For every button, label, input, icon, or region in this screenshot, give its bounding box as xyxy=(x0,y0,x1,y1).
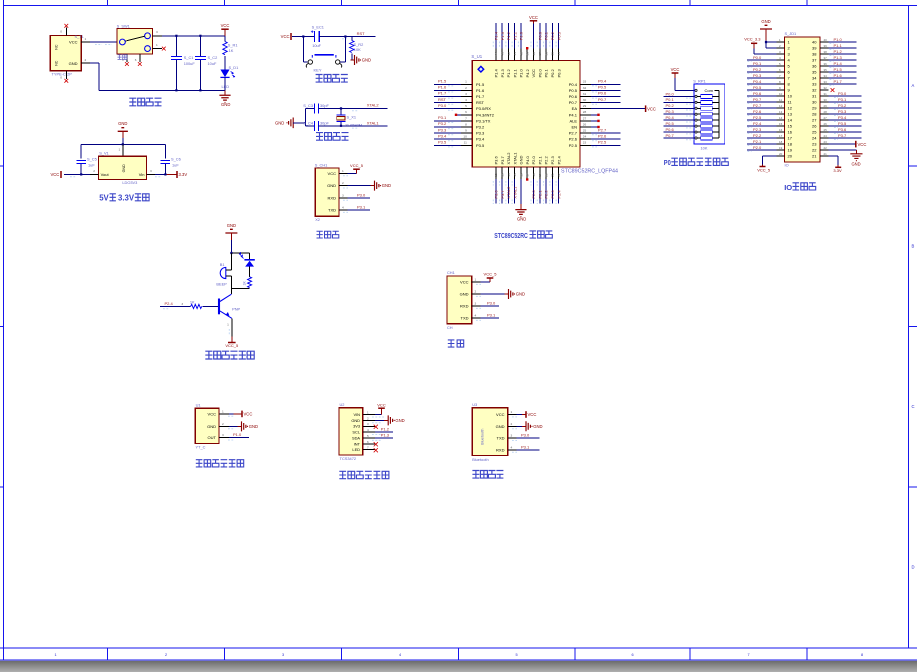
svg-text:2: 2 xyxy=(465,86,467,90)
svg-text:13: 13 xyxy=(779,110,783,114)
resistor S_R2 10K xyxy=(350,37,364,53)
svg-text:P0.0: P0.0 xyxy=(753,55,762,60)
svg-text:GND: GND xyxy=(207,424,216,429)
node title serial xyxy=(448,340,455,347)
wire stub with marker xyxy=(591,114,598,116)
svg-text:P2.2: P2.2 xyxy=(544,155,549,164)
svg-text:RST: RST xyxy=(438,97,447,102)
svg-text:16: 16 xyxy=(519,173,523,177)
wire net P3.6 xyxy=(829,131,862,133)
svg-text:VCC_5: VCC_5 xyxy=(757,167,771,172)
capacitor S_C1 100uF xyxy=(171,36,195,91)
svg-text:33: 33 xyxy=(824,80,828,84)
svg-text:27: 27 xyxy=(583,116,587,120)
svg-text:4: 4 xyxy=(511,445,513,449)
crystal S_X1 11.0592M xyxy=(337,108,363,127)
svg-text:P0.3: P0.3 xyxy=(556,31,561,40)
svg-text:P3.7: P3.7 xyxy=(500,155,505,164)
svg-text:GND: GND xyxy=(122,164,126,172)
svg-text:3.3V: 3.3V xyxy=(833,168,842,173)
resistor R7 of pack (P0.6) xyxy=(695,131,697,133)
svg-text:S_EC1: S_EC1 xyxy=(312,25,324,30)
svg-text:4: 4 xyxy=(399,653,401,657)
svg-text:P4.1: P4.1 xyxy=(569,112,578,117)
junction xyxy=(80,173,82,175)
node title color xyxy=(339,471,346,478)
svg-text:1: 1 xyxy=(227,323,229,327)
svg-text:S_C6: S_C6 xyxy=(171,156,181,161)
svg-text:32: 32 xyxy=(824,86,828,90)
svg-text:RST: RST xyxy=(357,31,366,36)
no-connect 3V3 xyxy=(374,425,378,429)
svg-text:EN: EN xyxy=(571,125,577,130)
svg-text:P1.1: P1.1 xyxy=(512,68,517,77)
svg-text:22: 22 xyxy=(557,173,561,177)
pin 1 marker diamond xyxy=(478,66,484,72)
no-connect INT xyxy=(374,442,378,446)
svg-text:S_CH1: S_CH1 xyxy=(315,162,328,167)
svg-text:29: 29 xyxy=(824,104,828,108)
resistor R5 of pack (P0.4) xyxy=(695,119,697,121)
push button S_K1 KEY xyxy=(303,37,345,73)
svg-text:P2.3: P2.3 xyxy=(550,190,555,199)
svg-text:1K: 1K xyxy=(243,281,247,286)
svg-text:37: 37 xyxy=(538,52,542,56)
svg-text:5: 5 xyxy=(465,104,467,108)
svg-text:P0.0: P0.0 xyxy=(666,91,675,96)
svg-text:1: 1 xyxy=(465,80,467,84)
svg-text:17: 17 xyxy=(779,134,783,138)
svg-text:37: 37 xyxy=(824,56,828,60)
svg-text:38: 38 xyxy=(824,50,828,54)
wire net P0.0 xyxy=(664,95,694,97)
svg-text:P3.0: P3.0 xyxy=(487,301,496,306)
svg-text:ALE: ALE xyxy=(569,118,577,123)
svg-text:42: 42 xyxy=(507,52,511,56)
svg-text:3.3V: 3.3V xyxy=(179,172,188,177)
svg-text:VCC_5: VCC_5 xyxy=(225,343,239,348)
wire net P0.1 xyxy=(545,23,547,49)
svg-text:U3: U3 xyxy=(472,402,477,407)
svg-text:15: 15 xyxy=(779,122,783,126)
svg-text:30: 30 xyxy=(583,98,587,102)
wire XTAL1 xyxy=(341,125,388,127)
wire net P1.7 xyxy=(829,83,857,85)
resistor R2 of pack (P0.1) xyxy=(695,101,697,103)
wire net P1.3 xyxy=(501,23,503,49)
wire net P2.6 xyxy=(591,138,621,140)
svg-text:P3.3: P3.3 xyxy=(476,131,485,136)
svg-text:P3.0/RX: P3.0/RX xyxy=(476,106,491,111)
svg-text:P1.7: P1.7 xyxy=(438,91,447,96)
svg-text:NC: NC xyxy=(55,60,59,66)
wire net P1.4 xyxy=(495,23,497,49)
svg-text:14: 14 xyxy=(779,116,783,120)
svg-text:EA: EA xyxy=(572,106,578,111)
resistor 1K base xyxy=(160,300,218,309)
wire net P2.3 xyxy=(747,131,777,133)
svg-text:18: 18 xyxy=(779,140,783,144)
net P3.1 bt xyxy=(516,444,539,450)
svg-text:21: 21 xyxy=(551,173,555,177)
svg-text:S_C3: S_C3 xyxy=(303,103,313,108)
net P3.0 xyxy=(348,192,371,197)
svg-text:1: 1 xyxy=(85,37,87,41)
junction xyxy=(302,35,304,37)
svg-text:KEY: KEY xyxy=(314,68,322,73)
net P3.1 xyxy=(348,205,371,210)
ground GND crystal xyxy=(275,118,293,129)
svg-text:3: 3 xyxy=(156,30,158,34)
junction xyxy=(199,89,201,91)
pin 32 stub marker xyxy=(831,88,835,92)
svg-text:NC: NC xyxy=(55,44,59,50)
svg-text:P0.0: P0.0 xyxy=(537,31,542,40)
wire T1 VCC to switch xyxy=(90,41,117,43)
transistor Q1 PNP xyxy=(219,289,241,319)
wire net P0.3 xyxy=(558,23,560,49)
node title download xyxy=(317,231,323,238)
svg-text:24: 24 xyxy=(812,136,817,141)
power port 3.3V xyxy=(155,171,187,178)
connector S_JD1 IO header xyxy=(785,37,821,162)
svg-text:1K: 1K xyxy=(190,300,195,305)
svg-text:P2.7: P2.7 xyxy=(753,103,762,108)
svg-text:7: 7 xyxy=(465,116,467,120)
svg-text:31: 31 xyxy=(824,92,828,96)
wire net P0.2 xyxy=(664,107,694,109)
svg-text:P0.4: P0.4 xyxy=(666,115,675,120)
svg-text:P0.7: P0.7 xyxy=(666,133,675,138)
svg-text:VCC: VCC xyxy=(377,403,386,408)
svg-text:GND: GND xyxy=(533,424,542,429)
svg-text:Vin: Vin xyxy=(139,172,145,177)
svg-text:35: 35 xyxy=(824,68,828,72)
wire net P1.1 xyxy=(829,47,857,49)
svg-text:P2.5: P2.5 xyxy=(569,143,578,148)
net P3.0 serial xyxy=(480,301,499,307)
svg-text:P3.4: P3.4 xyxy=(838,115,847,120)
svg-text:10: 10 xyxy=(788,94,793,99)
svg-text:0: 0 xyxy=(60,30,62,34)
svg-text:10: 10 xyxy=(779,92,783,96)
svg-text:P2.7: P2.7 xyxy=(569,131,578,136)
svg-text:U1: U1 xyxy=(196,402,201,407)
resistor R1 of pack (P0.0) xyxy=(695,95,697,97)
svg-text:S_JD1: S_JD1 xyxy=(785,31,797,36)
svg-text:P0.7: P0.7 xyxy=(569,100,578,105)
svg-text:P0.2: P0.2 xyxy=(666,103,675,108)
svg-text:34: 34 xyxy=(557,52,561,56)
svg-text:P0.7: P0.7 xyxy=(753,97,762,102)
svg-text:SCL: SCL xyxy=(352,430,360,435)
wire net P3.7 xyxy=(829,137,862,139)
ground GND chip xyxy=(515,204,526,221)
svg-text:31: 31 xyxy=(812,94,817,99)
svg-text:D: D xyxy=(912,565,915,570)
wire net P2.1 xyxy=(539,179,541,204)
svg-text:GND: GND xyxy=(516,292,525,297)
svg-text:12: 12 xyxy=(788,106,793,111)
wire net P2.4 xyxy=(558,179,560,204)
svg-text:6: 6 xyxy=(465,110,467,114)
svg-text:P1.3: P1.3 xyxy=(381,433,390,438)
svg-text:13: 13 xyxy=(788,112,793,117)
svg-text:VCC: VCC xyxy=(528,412,537,417)
svg-text:12: 12 xyxy=(494,173,498,177)
svg-text:TXD: TXD xyxy=(461,316,469,321)
svg-text:3: 3 xyxy=(181,302,183,306)
wire net XTAL1 xyxy=(514,179,516,204)
svg-text:P3.0: P3.0 xyxy=(357,192,366,197)
svg-text:23: 23 xyxy=(824,140,828,144)
svg-text:5V: 5V xyxy=(99,194,109,203)
svg-text:P2.4: P2.4 xyxy=(753,121,762,126)
svg-text:P1.4: P1.4 xyxy=(494,31,499,40)
svg-text:P4.0: P4.0 xyxy=(525,155,530,164)
svg-text:36: 36 xyxy=(544,52,548,56)
wire net P0.6 xyxy=(664,131,694,133)
svg-text:16: 16 xyxy=(779,128,783,132)
net P1.0 xyxy=(229,432,249,438)
svg-text:S_R1: S_R1 xyxy=(228,42,238,47)
svg-text:P1.2: P1.2 xyxy=(506,68,511,77)
svg-text:2: 2 xyxy=(165,653,167,657)
svg-text:P2.4: P2.4 xyxy=(165,301,174,306)
wire net P2.5 xyxy=(747,119,777,121)
connector S_CH1 download xyxy=(315,162,348,221)
svg-text:LED: LED xyxy=(352,447,360,452)
svg-text:29: 29 xyxy=(812,106,817,111)
svg-text:P0.7: P0.7 xyxy=(598,97,607,102)
svg-text:GND: GND xyxy=(327,183,336,188)
svg-text:P2.3: P2.3 xyxy=(753,127,762,132)
ground GND serial xyxy=(480,289,525,299)
svg-text:P0.2: P0.2 xyxy=(550,31,555,40)
svg-text:VCC: VCC xyxy=(281,34,290,39)
svg-text:P1.7: P1.7 xyxy=(834,79,843,84)
power port VCC_5 download xyxy=(348,163,364,173)
svg-text:25: 25 xyxy=(583,129,587,133)
wire GND pin down xyxy=(520,179,522,204)
svg-text:P0.1: P0.1 xyxy=(544,68,549,77)
svg-text:P3.2: P3.2 xyxy=(838,103,847,108)
svg-text:P0.3: P0.3 xyxy=(753,73,762,78)
wire buzzer to bottom xyxy=(230,276,232,289)
svg-text:14: 14 xyxy=(507,173,511,177)
wire stub with marker xyxy=(591,126,598,128)
svg-text:19: 19 xyxy=(788,148,793,153)
svg-text:43: 43 xyxy=(500,52,504,56)
net P1.2 xyxy=(372,427,393,435)
ground GND power circuit xyxy=(219,90,230,107)
svg-text:P3.7: P3.7 xyxy=(500,190,505,199)
wire stub P4.0 xyxy=(526,178,528,180)
svg-text:1uF: 1uF xyxy=(172,163,179,168)
wire net P1.0 xyxy=(829,41,857,43)
power port VCC rp1 xyxy=(671,67,694,90)
svg-text:S_R2: S_R2 xyxy=(354,42,364,47)
junction xyxy=(175,35,177,37)
svg-text:39: 39 xyxy=(526,52,530,56)
svg-text:P2.6: P2.6 xyxy=(753,109,762,114)
svg-text:P3.6: P3.6 xyxy=(494,190,499,199)
wire net P3.7 xyxy=(501,179,503,204)
svg-text:P0.6: P0.6 xyxy=(666,127,675,132)
svg-text:GND: GND xyxy=(249,424,258,429)
svg-text:P2.0: P2.0 xyxy=(531,190,536,199)
svg-text:P2.0: P2.0 xyxy=(531,155,536,164)
svg-text:15: 15 xyxy=(788,124,793,129)
svg-text:3: 3 xyxy=(150,169,152,173)
svg-text:P3.1: P3.1 xyxy=(357,205,366,210)
wire net P3.0 xyxy=(434,108,461,110)
power port VCC_5 io xyxy=(757,156,776,172)
power port VCC color xyxy=(372,403,386,423)
svg-text:38: 38 xyxy=(532,52,536,56)
svg-text:P3.3: P3.3 xyxy=(838,109,847,114)
wire net RST xyxy=(434,102,461,104)
svg-text:P1.2: P1.2 xyxy=(834,49,843,54)
svg-text:P3.5: P3.5 xyxy=(438,140,447,145)
svg-text:P3.5: P3.5 xyxy=(838,121,847,126)
wire net P0.6 xyxy=(747,95,777,97)
svg-text:7: 7 xyxy=(747,653,749,657)
wire net P2.3 xyxy=(551,179,553,204)
wire top rail to VCC xyxy=(162,35,225,37)
svg-text:P3.5: P3.5 xyxy=(476,143,485,148)
wire net P0.7 xyxy=(591,102,621,104)
wire net P0.4 xyxy=(591,83,621,85)
svg-text:B1: B1 xyxy=(220,262,225,267)
svg-text:40: 40 xyxy=(824,38,828,42)
svg-text:U2: U2 xyxy=(340,402,345,407)
svg-text:P3.4: P3.4 xyxy=(438,133,447,138)
svg-text:100uF: 100uF xyxy=(184,61,196,66)
svg-text:23: 23 xyxy=(812,142,817,147)
IC S_U1 STC89C52RC_LQFP44 xyxy=(472,61,580,168)
svg-text:LED: LED xyxy=(222,84,230,89)
pin Com xyxy=(695,89,697,91)
svg-text:GND: GND xyxy=(395,418,404,423)
svg-text:10uF: 10uF xyxy=(208,61,217,66)
svg-text:26: 26 xyxy=(824,122,828,126)
wire net P1.1 xyxy=(514,23,516,49)
svg-text:S_D1: S_D1 xyxy=(229,65,239,70)
svg-text:P0.4: P0.4 xyxy=(598,79,607,84)
svg-text:2: 2 xyxy=(222,422,224,426)
svg-text:P3.3: P3.3 xyxy=(438,127,447,132)
power port VCC xyxy=(221,23,230,36)
svg-text:11: 11 xyxy=(779,98,782,102)
svg-text:39: 39 xyxy=(812,46,817,51)
svg-text:RXD: RXD xyxy=(496,447,505,452)
junction xyxy=(340,125,342,127)
svg-text:10K: 10K xyxy=(701,146,708,151)
node switch label xyxy=(118,55,122,60)
wire net P1.5 xyxy=(434,83,461,85)
power port VCC_5 serial xyxy=(480,272,497,282)
wire net P2.4 xyxy=(747,125,777,127)
node title alarm xyxy=(205,351,212,359)
wire net P0.2 xyxy=(747,71,777,73)
wire net P3.4 xyxy=(434,138,461,140)
svg-text:GND: GND xyxy=(851,162,860,167)
svg-text:P1.0: P1.0 xyxy=(233,432,242,437)
svg-text:1: 1 xyxy=(342,169,344,173)
svg-text:P1.0: P1.0 xyxy=(519,31,524,40)
svg-text:P0.4: P0.4 xyxy=(753,79,762,84)
svg-text:P2.4: P2.4 xyxy=(556,155,561,164)
svg-text:P2.1: P2.1 xyxy=(753,139,762,144)
ground GND liquid xyxy=(229,421,258,431)
ground GND ldo xyxy=(118,121,128,138)
svg-text:Vout: Vout xyxy=(101,172,110,177)
svg-text:44: 44 xyxy=(494,52,498,56)
wire net P1.7 xyxy=(434,96,461,98)
svg-text:38: 38 xyxy=(812,52,817,57)
svg-text:P0.3: P0.3 xyxy=(556,68,561,77)
wire net P1.3 xyxy=(829,59,857,61)
svg-text:P1.2: P1.2 xyxy=(381,427,390,432)
svg-text:12: 12 xyxy=(779,104,783,108)
svg-text:35: 35 xyxy=(551,52,555,56)
svg-text:TXD: TXD xyxy=(328,208,336,213)
node title crystal xyxy=(316,133,323,141)
svg-text:P1.3: P1.3 xyxy=(834,55,843,60)
svg-text:18: 18 xyxy=(532,173,536,177)
svg-text:40: 40 xyxy=(519,52,523,56)
svg-text:XTAL1: XTAL1 xyxy=(512,152,517,165)
svg-text:VCC: VCC xyxy=(671,67,680,72)
svg-text:RXD: RXD xyxy=(328,195,337,200)
svg-text:8: 8 xyxy=(861,653,863,657)
svg-text:27: 27 xyxy=(824,116,828,120)
svg-text:VCC: VCC xyxy=(221,23,230,28)
svg-text:Bluetooth: Bluetooth xyxy=(479,429,484,445)
svg-text:26: 26 xyxy=(812,124,817,129)
svg-text:B: B xyxy=(912,244,915,249)
capacitor S_EC1 10uF xyxy=(311,25,324,48)
resistor R3 of pack (P0.2) xyxy=(695,107,697,109)
svg-text:3.3V: 3.3V xyxy=(118,194,135,203)
wire net P3.0 xyxy=(829,95,862,97)
wire net P0.5 xyxy=(591,89,621,91)
svg-text:1: 1 xyxy=(222,409,224,413)
svg-text:XTAL1: XTAL1 xyxy=(512,186,517,199)
svg-text:P3.0: P3.0 xyxy=(838,91,847,96)
svg-text:GND: GND xyxy=(362,58,371,63)
svg-text:33: 33 xyxy=(812,82,817,87)
power port VCC chip top xyxy=(530,20,537,22)
svg-text:34: 34 xyxy=(824,74,828,78)
svg-text:17: 17 xyxy=(526,173,530,177)
wire net P1.6 xyxy=(829,77,857,79)
svg-text:XTAL2: XTAL2 xyxy=(506,152,511,165)
svg-text:25: 25 xyxy=(812,130,817,135)
svg-text:OUT: OUT xyxy=(208,435,217,440)
svg-text:14: 14 xyxy=(788,118,793,123)
svg-text:S_C4: S_C4 xyxy=(303,120,314,125)
svg-text:3V3: 3V3 xyxy=(353,424,360,429)
svg-text:GND: GND xyxy=(517,216,526,221)
svg-text:30pF: 30pF xyxy=(320,120,329,125)
resistor R4 of pack (P0.3) xyxy=(695,113,697,115)
svg-text:P3.7: P3.7 xyxy=(838,133,847,138)
svg-text:22: 22 xyxy=(812,148,817,153)
svg-text:P2.2: P2.2 xyxy=(544,190,549,199)
svg-text:P2.0: P2.0 xyxy=(753,145,762,150)
